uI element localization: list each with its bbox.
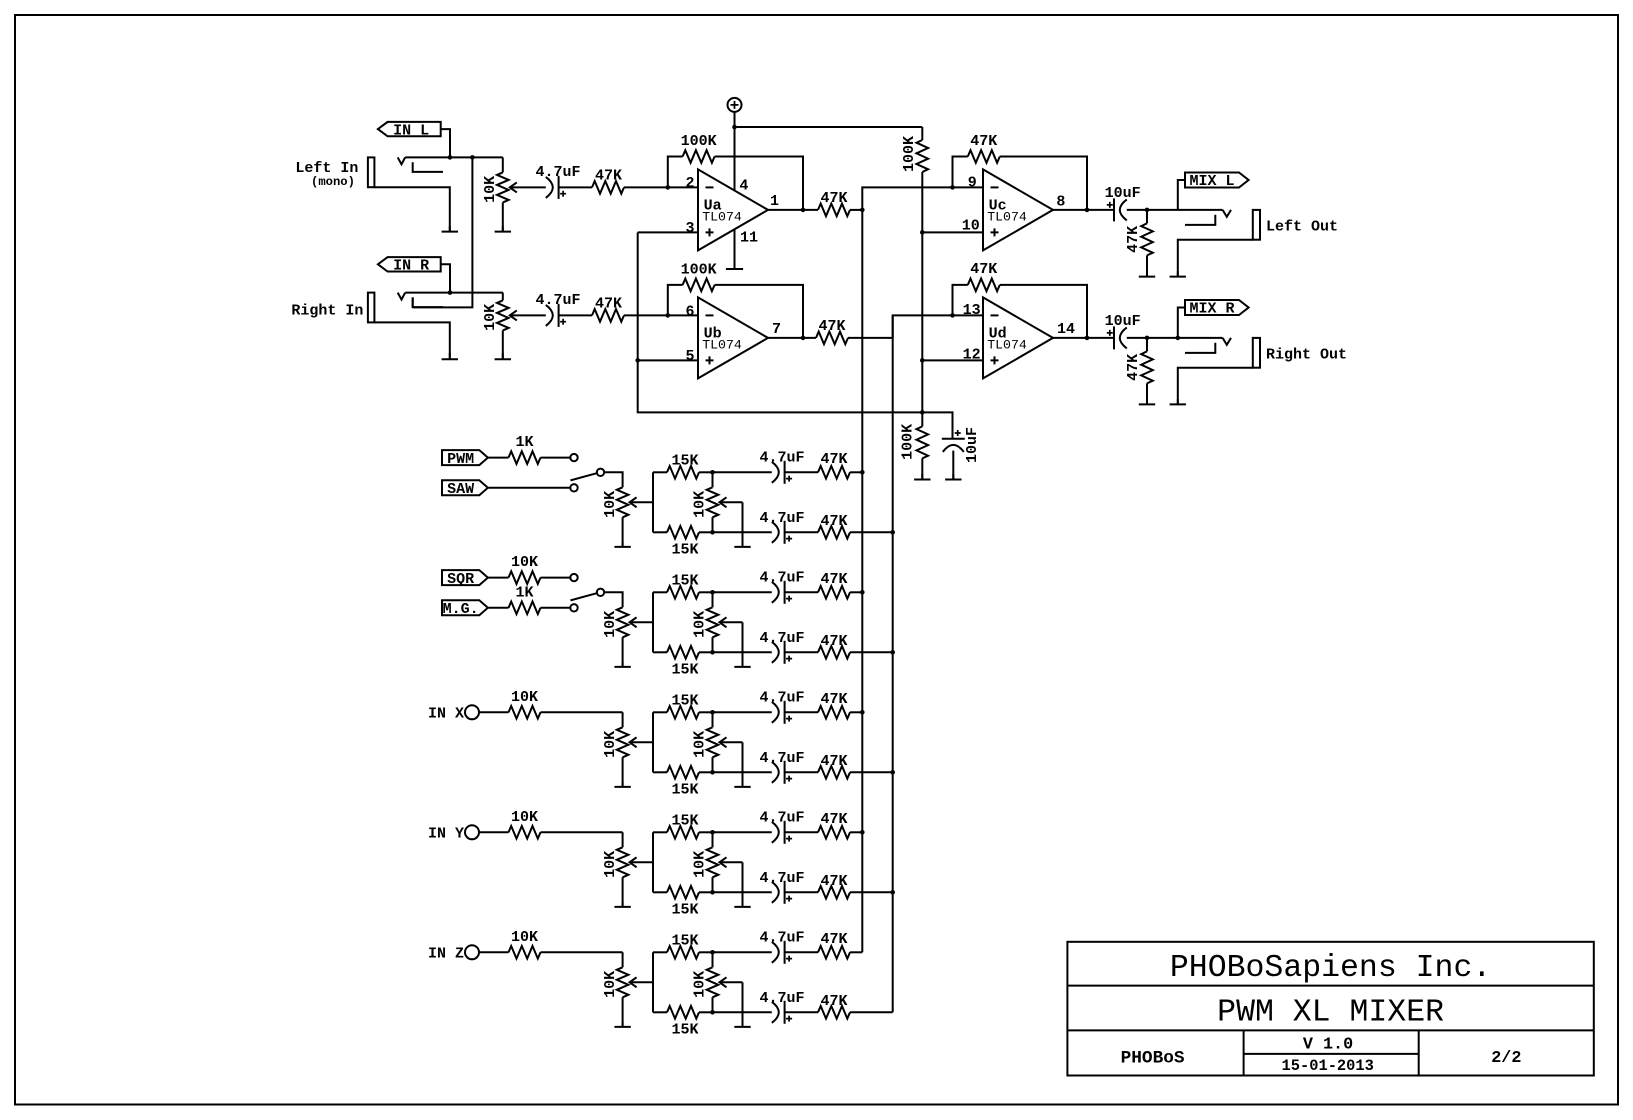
wire mix R [1127,337,1223,339]
svg-text:1: 1 [770,193,779,210]
svg-text:10K: 10K [692,491,709,518]
ground pan wiper [734,862,750,907]
label 4.7uF L [535,164,580,181]
node bias pin12 [920,358,925,363]
label 10K volume [602,611,619,638]
label 47K Ub out [818,318,845,335]
switch SW blade [571,473,597,480]
wire cap to 47K top [785,591,818,593]
svg-text:47K: 47K [820,691,847,708]
label 10K pan [692,611,709,638]
svg-text:4.7uF: 4.7uF [759,569,804,586]
wire pan to cap bottom [713,531,772,533]
svg-text:10K: 10K [511,554,538,571]
potentiometer 10K volume [617,727,653,757]
svg-text:10K: 10K [692,731,709,758]
wire pan to cap top [713,591,772,593]
wire Ua 47K to bus L [850,209,862,211]
title date [1282,1057,1374,1075]
pin 12 [963,346,981,363]
node pan bottom [710,770,715,775]
label 47K top [820,571,847,588]
label 15K top [671,452,698,469]
node bias pin10 [920,230,925,235]
wire mix L [1127,209,1223,211]
label 10K [511,809,538,826]
label 10K pot L [482,176,499,203]
tag IN L [378,122,441,139]
svg-text:SQR: SQR [447,571,474,588]
ground 10uF bias [945,474,961,480]
wire bias vertical [921,172,923,426]
wire riser [652,712,654,772]
label 15K bottom [671,542,698,559]
ground 47K load L [1139,271,1155,277]
wire L out sleeve [1178,240,1253,277]
svg-text:11: 11 [740,230,758,247]
title company [1170,951,1491,986]
resistor 47K feedback Ud [953,279,1088,338]
label 100K Ua [681,133,717,150]
potentiometer 10K pan [707,712,743,772]
label 10K [511,929,538,946]
svg-text:15K: 15K [671,452,698,469]
svg-text:3: 3 [685,220,694,237]
wire 47K to bus R [850,891,893,893]
potentiometer 10K pan [707,592,743,652]
tag M.G. [442,600,488,618]
svg-text:4.7uF: 4.7uF [759,990,804,1007]
wire Uc out [1053,209,1114,211]
svg-text:7: 7 [772,321,781,338]
wire power rail [735,126,923,128]
svg-text:47K: 47K [820,993,847,1010]
resistor 100K feedback Ub [668,279,803,338]
label 4.7uF bottom [759,750,804,767]
ground pot volume [614,637,630,667]
resistor 15K bottom [653,886,713,899]
capacitor 4.7uF top [772,701,792,724]
wire 47K to bus R [850,531,893,533]
label 15K top [671,932,698,949]
resistor 47K series L [592,181,624,194]
node Ud inverting input [950,313,955,318]
potentiometer 10K volume [617,607,653,637]
label IN X [428,706,464,723]
switch SW blade [571,593,597,600]
potentiometer 10K input L [497,157,546,202]
node Ub output [801,336,806,341]
label 4.7uF top [759,689,804,706]
label 15K bottom [671,782,698,799]
ground pot R [495,353,511,359]
svg-text:PWM XL MIXER: PWM XL MIXER [1217,996,1444,1031]
svg-text:(mono): (mono) [311,175,355,189]
svg-text:PHOBoS: PHOBoS [1121,1049,1185,1069]
node pan bottom [710,530,715,535]
pin 10 [962,218,980,235]
svg-text:47K: 47K [595,296,622,313]
ground Ua V- [726,263,743,269]
terminal IN X [465,705,479,719]
svg-text:V 1.0: V 1.0 [1303,1035,1353,1054]
label IN Z [428,946,464,963]
capacitor 4.7uF bottom [772,1001,792,1024]
ground pot volume [614,517,630,547]
tag MIX L [1185,173,1249,191]
resistor 47K Ub out [816,332,848,345]
label 10K pan [692,491,709,518]
jack J2 Right In [368,293,443,323]
svg-text:47K: 47K [820,451,847,468]
svg-text:10K: 10K [511,689,538,706]
power V+ symbol [728,98,742,127]
jack J4 Right Out [1185,338,1260,368]
svg-text:2: 2 [685,175,694,192]
svg-text:1K: 1K [515,434,533,451]
label 1K [515,584,533,601]
wire 47K to bus R [850,1011,893,1013]
svg-text:15K: 15K [671,782,698,799]
node pan top [710,830,715,835]
label 47K series L [595,168,622,185]
tag IN R [378,257,441,274]
svg-text:10K: 10K [602,851,619,878]
resistor 47K bottom [818,646,850,659]
capacitor 10uF bias [942,430,965,480]
potentiometer 10K pan [707,952,743,1012]
svg-text:TL074: TL074 [702,337,742,352]
node Uc inverting input [950,185,955,190]
capacitor 10uF mix L [1107,198,1127,221]
wire riser [652,592,654,652]
label 4.7uF top [759,929,804,946]
svg-text:47K: 47K [820,811,847,828]
svg-text:47K: 47K [1125,226,1142,253]
resistor 47K bottom [818,1006,850,1019]
pin 6 [685,304,694,321]
resistor 100K bias upper [917,140,929,172]
label 47K load L [1125,226,1142,253]
node bus L strip [860,830,865,835]
node bus L strip [860,710,865,715]
node 47K load R [1145,336,1150,341]
resistor 47K Ua out [818,204,850,217]
svg-text:47K: 47K [1125,354,1142,381]
label 15K top [671,812,698,829]
label 10uF bias [964,427,981,463]
label 10uF mix L [1105,185,1141,202]
resistor 47K series R [592,309,624,322]
svg-text:15K: 15K [671,692,698,709]
resistor 47K top [818,586,850,599]
svg-text:10K: 10K [602,491,619,518]
label 4.7uF top [759,449,804,466]
wire Ud out [1053,337,1114,339]
svg-text:47K: 47K [970,133,997,150]
label 4.7uF bottom [759,870,804,887]
label 4.7uF bottom [759,990,804,1007]
pin 1 [770,193,779,210]
label 47K bottom [820,633,847,650]
svg-text:4.7uF: 4.7uF [759,929,804,946]
wire cap to 47K bottom [785,531,818,533]
wire L sleeve [374,187,449,231]
capacitor 4.7uF bottom [772,521,792,544]
label 10K volume [602,971,619,998]
label 15K bottom [671,902,698,919]
label 4.7uF top [759,569,804,586]
ground R jack [442,353,458,359]
label 47K series R [595,296,622,313]
wire pin12 [922,359,983,361]
label 10K volume [602,851,619,878]
pin 3 [685,220,694,237]
wire R out sleeve [1178,368,1253,405]
ground pot volume [614,997,630,1027]
wire cap to 47K bottom [785,1011,818,1013]
ground pan wiper [734,742,750,787]
label IN Y [428,826,464,843]
ground L out jack [1170,271,1186,277]
svg-text:10K: 10K [482,304,499,331]
capacitor 4.7uF bottom [772,881,792,904]
label 4.7uF bottom [759,630,804,647]
pin 9 [968,175,977,192]
terminal IN Y [465,825,479,839]
pin 2 [685,175,694,192]
wire pan to cap top [713,471,772,473]
node mono normal tap [470,155,475,160]
wire pan to cap top [713,951,772,953]
svg-text:10K: 10K [602,731,619,758]
resistor 47K top [818,826,850,839]
title author [1121,1049,1185,1069]
wire 47K to Ua pin2 [624,186,698,188]
node L tip / IN L [448,155,453,160]
wire cap to 47K top [785,951,818,953]
wire pan to cap bottom [713,1011,772,1013]
pin 11 [740,230,758,247]
svg-text:4.7uF: 4.7uF [535,292,580,309]
node Ub inverting input [666,313,671,318]
potentiometer 10K input R [497,293,546,331]
resistor 47K bottom [818,886,850,899]
svg-text:13: 13 [963,302,981,319]
wire 47K to bus L [850,951,862,953]
op-amp U1b [698,297,768,378]
svg-text:SAW: SAW [447,481,474,498]
ground R out jack [1170,399,1186,404]
svg-text:47K: 47K [818,318,845,335]
svg-text:15K: 15K [671,932,698,949]
svg-text:MIX R: MIX R [1189,301,1234,318]
svg-text:4: 4 [739,177,748,194]
capacitor 4.7uF top [772,461,792,484]
wire cap to 47K bottom [785,771,818,773]
svg-text:10K: 10K [602,971,619,998]
svg-text:100K: 100K [901,136,918,172]
resistor 10K IN Z [479,946,623,959]
svg-text:15-01-2013: 15-01-2013 [1282,1057,1374,1075]
svg-text:4.7uF: 4.7uF [759,449,804,466]
wire tag MIX R lead [1178,308,1185,338]
svg-text:47K: 47K [970,261,997,278]
pin 7 [772,321,781,338]
title name [1217,996,1444,1031]
node power rail [732,125,737,130]
ground pot L [495,226,511,232]
node bus R strip [890,890,895,895]
wire mono normal to R jack switch [413,157,473,307]
label Right In [291,302,363,319]
switch SW contacts [570,574,604,612]
label 10K pan [692,971,709,998]
ground L jack [442,226,458,232]
svg-text:2/2: 2/2 [1491,1049,1521,1068]
node bias rail junction [920,410,925,415]
op-amp U1d [983,297,1053,378]
wire pan to cap bottom [713,771,772,773]
jack J1 Left In [368,157,443,187]
resistor 1K M.G. [488,602,570,615]
svg-text:47K: 47K [820,571,847,588]
capacitor 4.7uF R [546,304,566,327]
label 47K Uc [970,133,997,150]
title page [1491,1049,1521,1068]
label 47K top [820,931,847,948]
capacitor 4.7uF top [772,941,792,964]
svg-text:6: 6 [685,304,694,321]
svg-text:TL074: TL074 [702,209,742,224]
svg-text:9: 9 [968,175,977,192]
capacitor 4.7uF top [772,581,792,604]
svg-text:10uF: 10uF [1105,185,1141,202]
label 47K bottom [820,993,847,1010]
svg-text:Right Out: Right Out [1266,347,1347,364]
label 15K top [671,692,698,709]
svg-text:5: 5 [685,348,694,365]
wire 47K to bus L [850,591,862,593]
wire input to pot [622,952,624,967]
wire bias top lead [921,127,923,140]
pin 8 [1056,193,1065,210]
resistor 1K PWM [488,451,570,464]
svg-text:IN Y: IN Y [428,826,464,843]
label 15K bottom [671,662,698,679]
wire cap to 47K top [785,831,818,833]
ground pot volume [614,877,630,907]
svg-text:4.7uF: 4.7uF [759,750,804,767]
ground 100K bias [914,458,930,479]
label 47K top [820,811,847,828]
resistor 100K feedback Ua [668,150,803,210]
svg-text:10K: 10K [692,851,709,878]
node pan top [710,470,715,475]
ground pan wiper [734,622,750,667]
wire Ua supply pins 4/11 [734,127,736,269]
node pan top [710,590,715,595]
label 47K bottom [820,753,847,770]
svg-text:M.G.: M.G. [443,601,479,618]
tag SAW [442,480,488,498]
svg-text:15K: 15K [671,542,698,559]
wire cap to 47K top [785,471,818,473]
label Left Out [1266,218,1338,235]
resistor 47K bottom [818,526,850,539]
svg-text:15K: 15K [671,1022,698,1039]
potentiometer 10K volume [617,487,653,517]
capacitor 4.7uF top [772,821,792,844]
svg-text:TL074: TL074 [987,337,1027,352]
resistor 10K IN X [479,706,623,719]
node R tip / IN R [448,290,453,295]
label 10K [511,554,538,571]
potentiometer 10K volume [617,967,653,997]
svg-text:47K: 47K [820,873,847,890]
resistor 15K top [653,466,713,479]
switch SW contacts [570,454,604,492]
title block frame [1067,942,1593,1076]
wire pin10 [922,231,983,233]
wire input to pot [622,712,624,727]
node Uc output [1085,208,1090,213]
ground pot volume [614,757,630,787]
svg-text:100K: 100K [681,133,717,150]
wire input to pot [622,832,624,847]
svg-text:10uF: 10uF [1105,313,1141,330]
capacitor 10uF mix R [1107,326,1127,349]
wire switch pole to pot [604,592,622,607]
resistor 15K bottom [653,526,713,539]
ground 47K load R [1139,399,1155,404]
resistor 15K top [653,586,713,599]
wire riser [652,832,654,892]
label 100K bias lower [900,424,917,460]
svg-text:12: 12 [963,346,981,363]
wire pan to cap top [713,711,772,713]
jack J3 Left Out [1185,210,1260,240]
svg-text:Right In: Right In [291,302,363,319]
label 100K bias upper [901,136,918,172]
resistor 47K load L [1141,210,1153,277]
svg-text:IN Z: IN Z [428,946,464,963]
label 47K load R [1125,354,1142,381]
terminal IN Z [465,945,479,959]
label 47K Ua out [820,190,847,207]
svg-text:10K: 10K [692,611,709,638]
label 47K top [820,451,847,468]
svg-text:4.7uF: 4.7uF [535,164,580,181]
capacitor 4.7uF bottom [772,761,792,784]
node bus R strip [890,530,895,535]
capacitor 4.7uF L [546,176,566,199]
resistor 15K bottom [653,1006,713,1019]
label 1K [515,434,533,451]
wire 47K to bus R [850,651,893,653]
svg-text:1K: 1K [515,584,533,601]
label 100K Ub [681,262,717,279]
node mix R [1176,336,1181,341]
label 15K bottom [671,1022,698,1039]
wire cap to 47K bottom [785,891,818,893]
svg-text:4.7uF: 4.7uF [759,689,804,706]
svg-text:4.7uF: 4.7uF [759,809,804,826]
node Ud output [1085,336,1090,341]
wire SAW to switch [488,487,570,489]
node pan top [710,950,715,955]
title version [1303,1035,1353,1054]
